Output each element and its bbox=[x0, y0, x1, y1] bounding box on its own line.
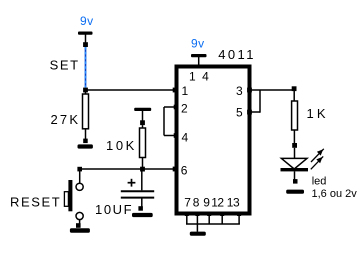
svg-text:4011: 4011 bbox=[218, 47, 256, 62]
node (top of 10K) bbox=[140, 120, 145, 125]
node (above ground, 27K) bbox=[83, 139, 88, 144]
wire (node to LED) bbox=[294, 148, 296, 158]
resistor 10K bbox=[140, 128, 146, 158]
wire bbox=[85, 35, 87, 44]
LED light arrow 1 bbox=[311, 149, 324, 162]
pin 6 node bbox=[173, 167, 178, 172]
node (above ground, LED) bbox=[293, 179, 298, 184]
resistor 27K bbox=[83, 94, 89, 129]
svg-text:1K: 1K bbox=[307, 106, 329, 121]
svg-text:3: 3 bbox=[236, 84, 243, 98]
ground (below IC) bbox=[190, 232, 206, 236]
wire (junction down to switch) bbox=[79, 171, 81, 183]
LED D1 triangle bbox=[281, 158, 307, 169]
wire (node A to pin 1) bbox=[86, 89, 177, 91]
switch RESET top contact bbox=[76, 183, 83, 190]
svg-text:7: 7 bbox=[184, 196, 191, 210]
pin 1 node bbox=[173, 88, 178, 93]
LED cathode bar bbox=[281, 168, 309, 171]
svg-text:1: 1 bbox=[182, 84, 189, 98]
power bar symbol (pin 14) bbox=[191, 54, 207, 57]
svg-text:6: 6 bbox=[181, 163, 188, 177]
switch RESET actuator bar bbox=[68, 180, 72, 211]
wire (27K to ground) bbox=[85, 129, 87, 139]
wire (pin 3 to 1K) bbox=[252, 89, 295, 91]
pin 12 stub bbox=[220, 213, 224, 216]
capacitor 10UF top plate bbox=[121, 190, 154, 192]
svg-text:9v: 9v bbox=[80, 14, 94, 28]
ground (below LED) bbox=[286, 190, 304, 194]
capacitor 10UF bottom plate bbox=[121, 197, 154, 199]
svg-text:8: 8 bbox=[193, 196, 200, 210]
svg-text:13: 13 bbox=[227, 196, 240, 210]
ground bus wire bbox=[186, 223, 240, 225]
pin 13 stub bbox=[237, 213, 241, 216]
wire (pin 2 stub) bbox=[164, 106, 176, 108]
svg-text:10UF: 10UF bbox=[95, 202, 133, 217]
wire (node A down to 27K) bbox=[85, 90, 87, 95]
power bar symbol (above 10K) bbox=[134, 108, 151, 111]
power bar symbol (left 9v) bbox=[78, 32, 93, 35]
IC U1 4011 body bbox=[177, 67, 250, 214]
node (10K / cap / pin6 wire junction) bbox=[140, 167, 145, 172]
pin 4 node bbox=[174, 133, 179, 138]
svg-text:9v: 9v bbox=[191, 37, 205, 51]
wire (RESET junction to pin 6) bbox=[80, 168, 176, 170]
resistor 1K bbox=[292, 101, 298, 130]
pin 8 stub bbox=[195, 213, 199, 216]
pin 3 node bbox=[247, 88, 252, 93]
switch RESET actuator bracket bbox=[64, 192, 68, 207]
pin 9 stub bbox=[207, 213, 211, 216]
switch RESET bottom contact bbox=[76, 212, 83, 219]
svg-text:12: 12 bbox=[211, 196, 224, 210]
svg-text:RESET: RESET bbox=[10, 194, 61, 209]
svg-text:4: 4 bbox=[182, 131, 189, 145]
wire (power bar to pin 14) bbox=[198, 57, 200, 66]
node (above ground, RESET) bbox=[76, 223, 81, 228]
wire (power bar to node) bbox=[142, 111, 144, 121]
wire (node to 10K) bbox=[142, 125, 144, 128]
svg-text:1,6 ou 2v: 1,6 ou 2v bbox=[312, 188, 358, 200]
svg-text:5: 5 bbox=[236, 106, 243, 120]
wire (bracket pin2-pin4) bbox=[163, 107, 165, 136]
SET pushbutton (blue dashed wire) bbox=[85, 47, 87, 88]
svg-text:27K: 27K bbox=[51, 112, 81, 127]
wire (node to 1K) bbox=[293, 91, 295, 102]
node A (junction 9v / 27K / pin1) bbox=[83, 88, 88, 93]
node (above LED) bbox=[292, 143, 297, 148]
node (junction RESET / pin 6 wire) bbox=[77, 167, 82, 172]
svg-text:SET: SET bbox=[50, 57, 80, 72]
svg-text:10K: 10K bbox=[106, 138, 137, 153]
wire (bracket pin3-pin5) bbox=[259, 90, 261, 113]
wire (junction down to capacitor) bbox=[141, 172, 143, 191]
node (pin 3 corner to 1K) bbox=[292, 86, 297, 91]
wire (capacitor to ground) bbox=[141, 199, 143, 207]
ground (below RESET) bbox=[70, 228, 90, 233]
svg-text:led: led bbox=[312, 176, 327, 188]
svg-text:14: 14 bbox=[189, 69, 215, 83]
node (top of SET button) bbox=[83, 42, 88, 47]
wire (bus to ground) bbox=[196, 224, 198, 232]
svg-text:2: 2 bbox=[181, 102, 188, 116]
wire (10K to junction) bbox=[142, 158, 144, 168]
pin 7 stub bbox=[185, 213, 189, 216]
pin 2 node bbox=[174, 105, 179, 110]
wire (LED to ground) bbox=[294, 171, 296, 179]
node (above ground, capacitor) bbox=[138, 206, 143, 211]
svg-text:9: 9 bbox=[203, 196, 210, 210]
wire (switch to ground) bbox=[79, 220, 81, 224]
wire (pin 4 stub) bbox=[164, 135, 176, 137]
wire (pin 5 stub) bbox=[252, 111, 261, 113]
LED light arrow 2 bbox=[311, 156, 323, 169]
capacitor plus sign bbox=[131, 179, 133, 187]
wire (1K to LED node) bbox=[293, 130, 295, 144]
ground (below 27K) bbox=[78, 144, 93, 148]
ground (below capacitor) bbox=[132, 213, 153, 217]
pin 5 node bbox=[247, 110, 252, 115]
